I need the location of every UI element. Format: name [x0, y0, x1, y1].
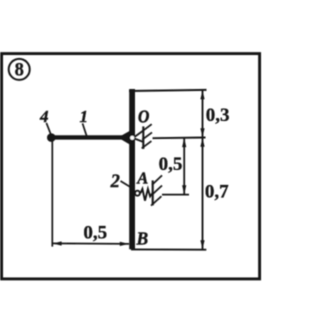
label 4	[39, 107, 51, 134]
svg-text:A: A	[136, 168, 148, 187]
svg-text:O: O	[138, 107, 149, 127]
extension line at B level / bottom dimension line (sloped)	[52, 243, 206, 249]
spring 2 with pin ring at A	[135, 189, 152, 201]
svg-text:1: 1	[80, 107, 89, 126]
dimension 0,7 (vertical line with arrows)	[200, 138, 229, 250]
svg-text:8: 8	[15, 61, 24, 81]
rod 1 (horizontal bar)	[50, 131, 130, 145]
svg-text:0,5: 0,5	[159, 154, 183, 175]
svg-text:0,7: 0,7	[205, 182, 229, 203]
dimension 0,5 (vertical, O to A)	[159, 138, 187, 195]
label B	[136, 228, 149, 248]
extension line left (from point 4 down)	[51, 140, 53, 247]
pin joint O (white pin hole)	[130, 136, 134, 140]
label 2	[110, 172, 131, 192]
label O	[138, 107, 149, 127]
label 1	[80, 107, 89, 136]
wall with hatching at A	[151, 175, 162, 205]
svg-text:0,5: 0,5	[83, 223, 107, 244]
dimension 0,3 (vertical line with arrows)	[200, 90, 229, 138]
fixed support wall at O with hatching	[133, 124, 152, 149]
label A	[136, 168, 148, 187]
border frame	[2, 54, 260, 279]
svg-text:2: 2	[110, 172, 120, 192]
extension line at A level	[162, 194, 189, 196]
vertical bar OB	[129, 89, 135, 249]
svg-text:B: B	[136, 228, 149, 248]
extension line top (from bar top)	[129, 90, 207, 91]
extension line at O level	[153, 137, 206, 140]
svg-text:0,3: 0,3	[206, 105, 230, 126]
point 4 (end dot)	[47, 133, 56, 142]
problem number badge 8	[9, 59, 30, 81]
dimension 0,5 (horizontal, bottom)	[53, 223, 129, 247]
